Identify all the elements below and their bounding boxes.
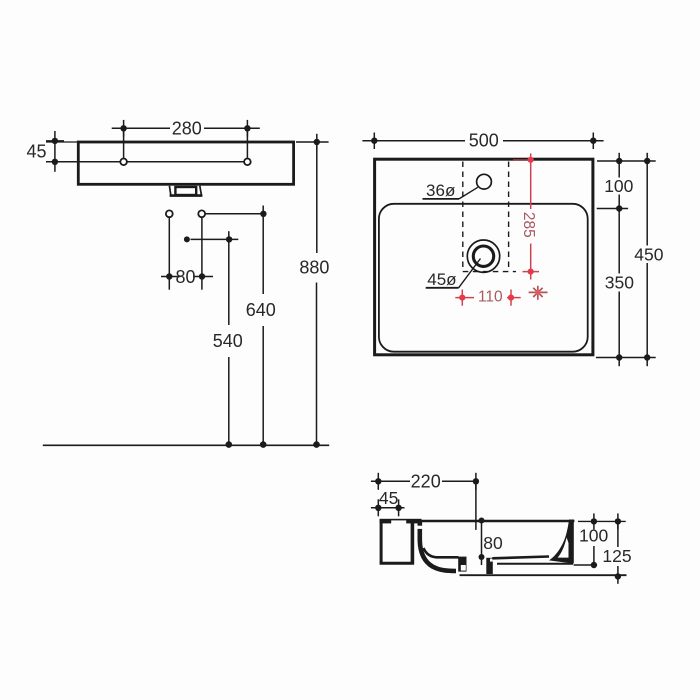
label 36 underline <box>423 198 460 200</box>
dim 880 tick top <box>316 134 318 150</box>
drain left lip <box>458 557 466 572</box>
dim 125 vertical segments <box>617 521 619 547</box>
dim 80 tick left <box>161 276 181 278</box>
extension line drain dot to 540 dim <box>191 238 239 240</box>
red asterisk center <box>536 290 541 295</box>
drain dot filled <box>184 236 190 242</box>
basin underside right line <box>497 563 573 565</box>
extension line from 280 left dot to tap hole <box>123 128 125 158</box>
red asterisk <box>529 286 548 300</box>
fixing hole left <box>166 210 173 217</box>
dim 880 vertical line lower <box>316 283 318 445</box>
right ext line bottom <box>596 357 656 359</box>
drain trapezoid left side <box>169 186 171 196</box>
extension line tap hole axis <box>46 161 120 163</box>
dim 45 tick bottom <box>46 161 64 163</box>
dim 125 dot top <box>615 518 621 524</box>
drain trapezoid bottom <box>170 194 203 197</box>
inner bottom right line <box>492 557 549 559</box>
dim 45 vertical line <box>54 131 56 172</box>
floor baseline <box>43 444 329 446</box>
dim 220 tick right <box>475 473 477 490</box>
dim 100 dot top <box>591 518 597 524</box>
dim 280 tick right <box>246 120 248 137</box>
extension line fixing holes to 640 dim <box>205 213 263 215</box>
dim 500 tick right <box>592 133 594 150</box>
drain inner circle <box>473 246 493 266</box>
svg-text:110: 110 <box>478 288 503 305</box>
drain trapezoid right side <box>200 186 202 196</box>
dim 220 dot left <box>375 478 381 484</box>
dim 80 tick right <box>193 276 213 278</box>
rim extension right <box>578 520 626 522</box>
drain right lip white inset <box>490 559 493 562</box>
tap hole 36 circle <box>477 174 492 189</box>
dim 80 vertical lower <box>481 529 483 565</box>
wall box right edge <box>411 521 415 565</box>
svg-text:220: 220 <box>411 471 441 491</box>
red dim 285 dot bottom <box>528 269 534 275</box>
red dim 110 dot left <box>459 295 465 301</box>
svg-text:280: 280 <box>172 118 202 138</box>
dim 280 dot left <box>120 125 126 131</box>
drain inner rect <box>175 187 196 195</box>
svg-text:45ø: 45ø <box>427 270 456 289</box>
svg-text:540: 540 <box>213 331 243 351</box>
dim 45 dot bottom <box>52 159 58 165</box>
wall box bottom edge <box>380 562 414 565</box>
dim 500 tick left <box>373 133 375 150</box>
dim 540 vertical upper <box>228 231 230 325</box>
dashed hole band bottom <box>463 271 516 273</box>
dim 450 vertical segments <box>646 153 648 246</box>
dim 100-350 vertical segments <box>618 153 620 178</box>
dim 640 dot top <box>260 211 266 217</box>
underside extension to 100 dim <box>574 564 598 566</box>
dim 45 dot left <box>375 505 381 511</box>
baseline dot 640 <box>260 441 267 448</box>
dim 500 dot right <box>590 138 596 144</box>
dim 640 vertical upper <box>262 206 264 295</box>
dim 45 line <box>371 507 405 509</box>
baseline dot 880 <box>313 441 320 448</box>
fixing hole right axis down <box>201 217 203 289</box>
bowl wall overflow notch <box>416 526 424 529</box>
dim 80 dot bottom <box>479 554 485 560</box>
dim 100 dot bottom <box>591 562 597 568</box>
red dim 110 tick right <box>510 290 512 306</box>
right ext line top <box>597 160 656 162</box>
dim 280 tick left <box>123 120 125 137</box>
label 45 leader <box>459 259 481 288</box>
dim 80 dot left <box>166 273 172 279</box>
svg-text:500: 500 <box>469 130 499 150</box>
dim 125 tick top <box>617 513 619 529</box>
dim 45 dot right <box>395 505 401 511</box>
dim 100 tick top <box>593 513 595 529</box>
dim 125 dot bottom <box>615 573 621 579</box>
svg-text:80: 80 <box>175 267 195 287</box>
label 36 leader <box>459 187 478 199</box>
dim 80 dot rim <box>479 518 485 524</box>
drain left lip white inset <box>461 565 466 571</box>
red dim 285 vertical upper <box>530 153 532 209</box>
svg-text:45: 45 <box>26 142 46 162</box>
dim 80 vertical upper <box>481 521 483 530</box>
red dim 285 bottom tick <box>523 271 540 273</box>
dim 640 vertical lower <box>262 326 264 445</box>
dashed hole band right <box>508 162 510 272</box>
dim 500 line <box>362 140 465 142</box>
dim 880 dot top <box>314 139 320 145</box>
rim bold left segment <box>380 519 422 524</box>
svg-text:45: 45 <box>379 488 398 508</box>
front basin outline <box>78 142 293 184</box>
dim 220 right extension down <box>475 481 477 530</box>
red dim 110 tick left <box>461 290 463 306</box>
svg-text:36ø: 36ø <box>426 181 455 200</box>
dim 45 dot top <box>52 138 58 144</box>
drain right lip <box>486 558 493 574</box>
dim 220 line <box>371 480 410 482</box>
dim 100-350 dots <box>616 158 622 164</box>
svg-text:350: 350 <box>605 272 634 292</box>
dim 880 vertical line upper <box>316 142 318 253</box>
red dim 110 dot right <box>508 295 514 301</box>
right ext line basin top <box>597 208 628 210</box>
dashed hole band left <box>462 162 464 272</box>
svg-text:80: 80 <box>483 533 503 553</box>
red dim 285 top segment over edge <box>513 159 531 161</box>
svg-text:285: 285 <box>520 212 537 238</box>
dim 280 line <box>112 127 170 129</box>
tap hole axis line between holes <box>127 161 244 163</box>
extension line top edge to 880 dim <box>296 141 329 143</box>
svg-text:125: 125 <box>602 546 631 566</box>
extension line from 280 right dot to tap hole <box>246 128 248 158</box>
drain bottom long line <box>460 574 627 576</box>
bowl wall outer curve <box>420 521 456 571</box>
svg-text:450: 450 <box>634 244 663 264</box>
wall box left edge <box>380 521 383 563</box>
svg-text:880: 880 <box>299 258 329 278</box>
dim 450 dots <box>644 158 650 164</box>
rim slot white <box>391 520 406 523</box>
label 45 underline <box>426 287 459 289</box>
baseline dot 540 <box>226 441 233 448</box>
dim 45 tick top <box>46 140 64 142</box>
dim 100 vertical lower <box>593 546 595 565</box>
fixing hole right <box>198 210 205 217</box>
dim 80 dot right <box>199 273 205 279</box>
svg-text:100: 100 <box>604 176 633 196</box>
red dim 285 vertical lower <box>530 244 532 280</box>
plan outer square <box>375 159 593 355</box>
dim 220 dot right <box>473 478 479 484</box>
tap hole right <box>244 159 251 166</box>
tap hole left <box>120 159 127 166</box>
right wall white hollow <box>558 538 569 558</box>
dim 220 tick left <box>377 473 379 490</box>
dim 45 tick left <box>377 499 379 516</box>
right wall fill <box>549 520 574 564</box>
dim 500 dot left <box>371 138 377 144</box>
dim 540 dot top <box>226 236 232 242</box>
dim 45 tick right <box>398 499 400 516</box>
bowl inner surface line <box>424 548 459 557</box>
red dim 110 line <box>455 297 474 299</box>
drain outer circle <box>467 240 499 272</box>
dim 280 dot right <box>244 125 250 131</box>
svg-text:100: 100 <box>579 526 608 546</box>
svg-text:640: 640 <box>246 300 276 320</box>
extension line top edge to 45 dim <box>46 141 78 143</box>
red dim 285 dot top <box>528 157 534 163</box>
fixing hole left axis down <box>168 217 170 289</box>
rim top line <box>380 520 575 522</box>
plan basin rounded rect <box>379 204 588 352</box>
dim 540 vertical lower <box>228 357 230 445</box>
